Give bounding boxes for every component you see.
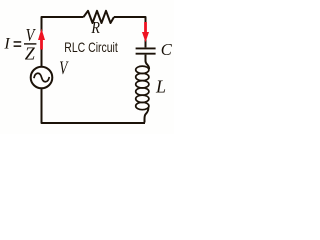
wire: inductor bottom lead: [145, 107, 149, 122]
label R: [90, 19, 100, 37]
svg-text:R: R: [90, 19, 100, 37]
wire: resistor to capacitor (top-right horizontal + right vertical): [114, 17, 146, 47]
equals sign: [14, 41, 22, 47]
current arrow up (left wire): [38, 29, 45, 50]
wire: capacitor to inductor: [146, 55, 150, 69]
svg-text:C: C: [161, 40, 173, 59]
AC source sine wave: [34, 73, 49, 81]
wire: bottom return (source bottom, bottom horizontal): [42, 88, 146, 123]
label V (source): [59, 59, 69, 79]
svg-text:I: I: [3, 36, 10, 53]
fraction bar: [24, 43, 36, 44]
svg-text:L: L: [155, 77, 166, 97]
inductor L coil: [136, 66, 149, 110]
svg-text:RLC Circuit: RLC Circuit: [64, 39, 118, 55]
AC source V circle: [31, 67, 53, 89]
capacitor C plates: [136, 48, 156, 53]
resistor R zigzag: [84, 11, 115, 23]
svg-text:V: V: [59, 59, 69, 79]
wire: source top to resistor (left vertical + top-left horizontal): [42, 17, 84, 67]
current arrow down (right wire): [142, 22, 149, 42]
svg-text:Z: Z: [25, 43, 36, 63]
fraction V numerator: [26, 25, 37, 46]
